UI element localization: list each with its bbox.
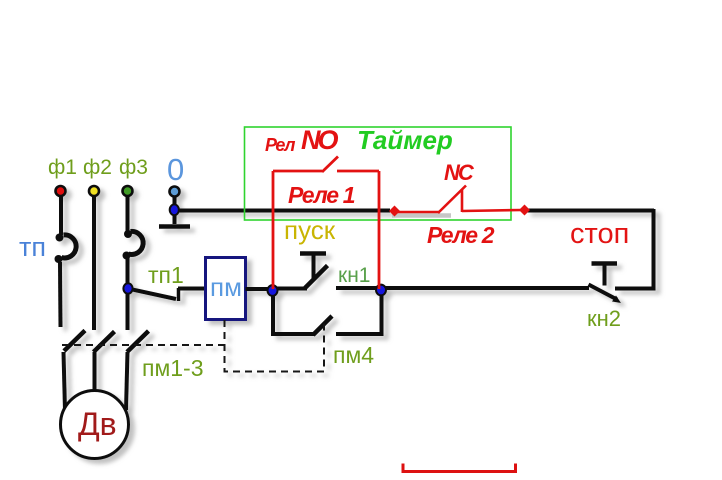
- wire кн1 junction to кн2: [381, 286, 589, 290]
- svg-text:Таймер: Таймер: [357, 125, 453, 155]
- terminal ф1: [56, 186, 66, 196]
- svg-text:NC: NC: [444, 160, 475, 185]
- pushbutton кн1 blade: [305, 266, 328, 289]
- node ф3 control tap: [123, 283, 132, 293]
- wire motor lead 3: [126, 352, 128, 410]
- relay Реле2 NC bar: [461, 189, 464, 212]
- wire phase ф1 upper: [59, 196, 63, 235]
- svg-text:кн1: кн1: [338, 264, 370, 287]
- svg-text:кн2: кн2: [587, 306, 621, 331]
- relay Реле1 NO contact top: [273, 157, 379, 173]
- wire phase ф3 lower: [126, 258, 130, 330]
- relay Реле1 contact annotation right riser: [378, 171, 381, 289]
- breaker тп pole 2: [129, 231, 144, 254]
- timer box (green): [245, 127, 512, 220]
- main contacts пм1-3 blades: [64, 331, 85, 352]
- wire phase ф2: [92, 196, 96, 330]
- terminal ф2: [89, 186, 99, 196]
- svg-text:0: 0: [167, 152, 184, 187]
- contactor coil пм: [206, 258, 246, 320]
- wire phase ф3 upper: [126, 196, 130, 231]
- motor Дв: [61, 391, 129, 459]
- svg-text:Реле 1: Реле 1: [288, 182, 355, 208]
- svg-text:пм1-3: пм1-3: [142, 355, 204, 381]
- pushbutton кн1 right wire: [336, 286, 378, 290]
- relay Реле2 NC blade: [438, 186, 466, 214]
- wire phase ф1 lower: [58, 262, 63, 327]
- svg-text:ф1: ф1: [48, 156, 77, 179]
- wire from Реле2 to стоп riser: [526, 209, 654, 213]
- wire тп1 to пм: [178, 287, 206, 291]
- wire neutral bus from node 0 to Реле2: [177, 209, 390, 213]
- breaker тп pole 1: [62, 235, 77, 258]
- svg-text:тп: тп: [19, 232, 46, 262]
- terminal ф3: [123, 186, 133, 196]
- dashed link coil пм down to пм4: [225, 320, 325, 372]
- dashed link пм1-3 to coil: [62, 344, 225, 346]
- node 0 neutral junction: [170, 204, 179, 215]
- svg-text:Дв: Дв: [78, 406, 117, 442]
- relay Реле2 NC contact wire left: [397, 211, 440, 214]
- auxiliary contact пм4 blade: [313, 316, 332, 335]
- pushbutton кн1 (пуск) left wire: [273, 287, 307, 291]
- ground at node 0: [173, 196, 177, 224]
- wire motor lead 2: [93, 352, 97, 392]
- svg-text:ф2: ф2: [83, 156, 112, 179]
- node relay tap right (red): [519, 205, 530, 216]
- thermal contact тп1 blade: [130, 289, 176, 299]
- pushbutton кн1 actuator: [300, 251, 326, 256]
- terminal 0: [170, 187, 180, 197]
- wire right riser to кн2: [615, 209, 654, 289]
- pushbutton кн2 (стоп, NC) blade: [589, 285, 618, 300]
- svg-text:ф3: ф3: [119, 156, 148, 179]
- relay Реле1 contact annotation left riser: [272, 171, 275, 289]
- relay Реле2 NC contact wire right: [462, 210, 522, 211]
- red bracket annotation bottom: [403, 464, 516, 472]
- svg-text:Реле 2: Реле 2: [427, 222, 495, 248]
- node A junction: [268, 285, 278, 296]
- auxiliary contact пм4 loop right: [336, 293, 382, 334]
- auxiliary contact пм4 loop left: [273, 293, 314, 334]
- remnant shadow of erased bus segment: [392, 213, 451, 218]
- node relay tap left (red): [389, 206, 400, 217]
- wire motor lead 1: [64, 352, 66, 410]
- svg-text:пм4: пм4: [333, 342, 374, 368]
- node B junction: [376, 285, 386, 296]
- svg-text:тп1: тп1: [148, 262, 184, 288]
- svg-text:Рел: Рел: [265, 135, 295, 155]
- wire пм to node A: [246, 287, 272, 291]
- svg-text:NO: NO: [301, 125, 338, 155]
- svg-text:пм: пм: [210, 272, 242, 302]
- svg-text:стоп: стоп: [570, 218, 629, 250]
- pushbutton кн2 actuator: [592, 261, 618, 266]
